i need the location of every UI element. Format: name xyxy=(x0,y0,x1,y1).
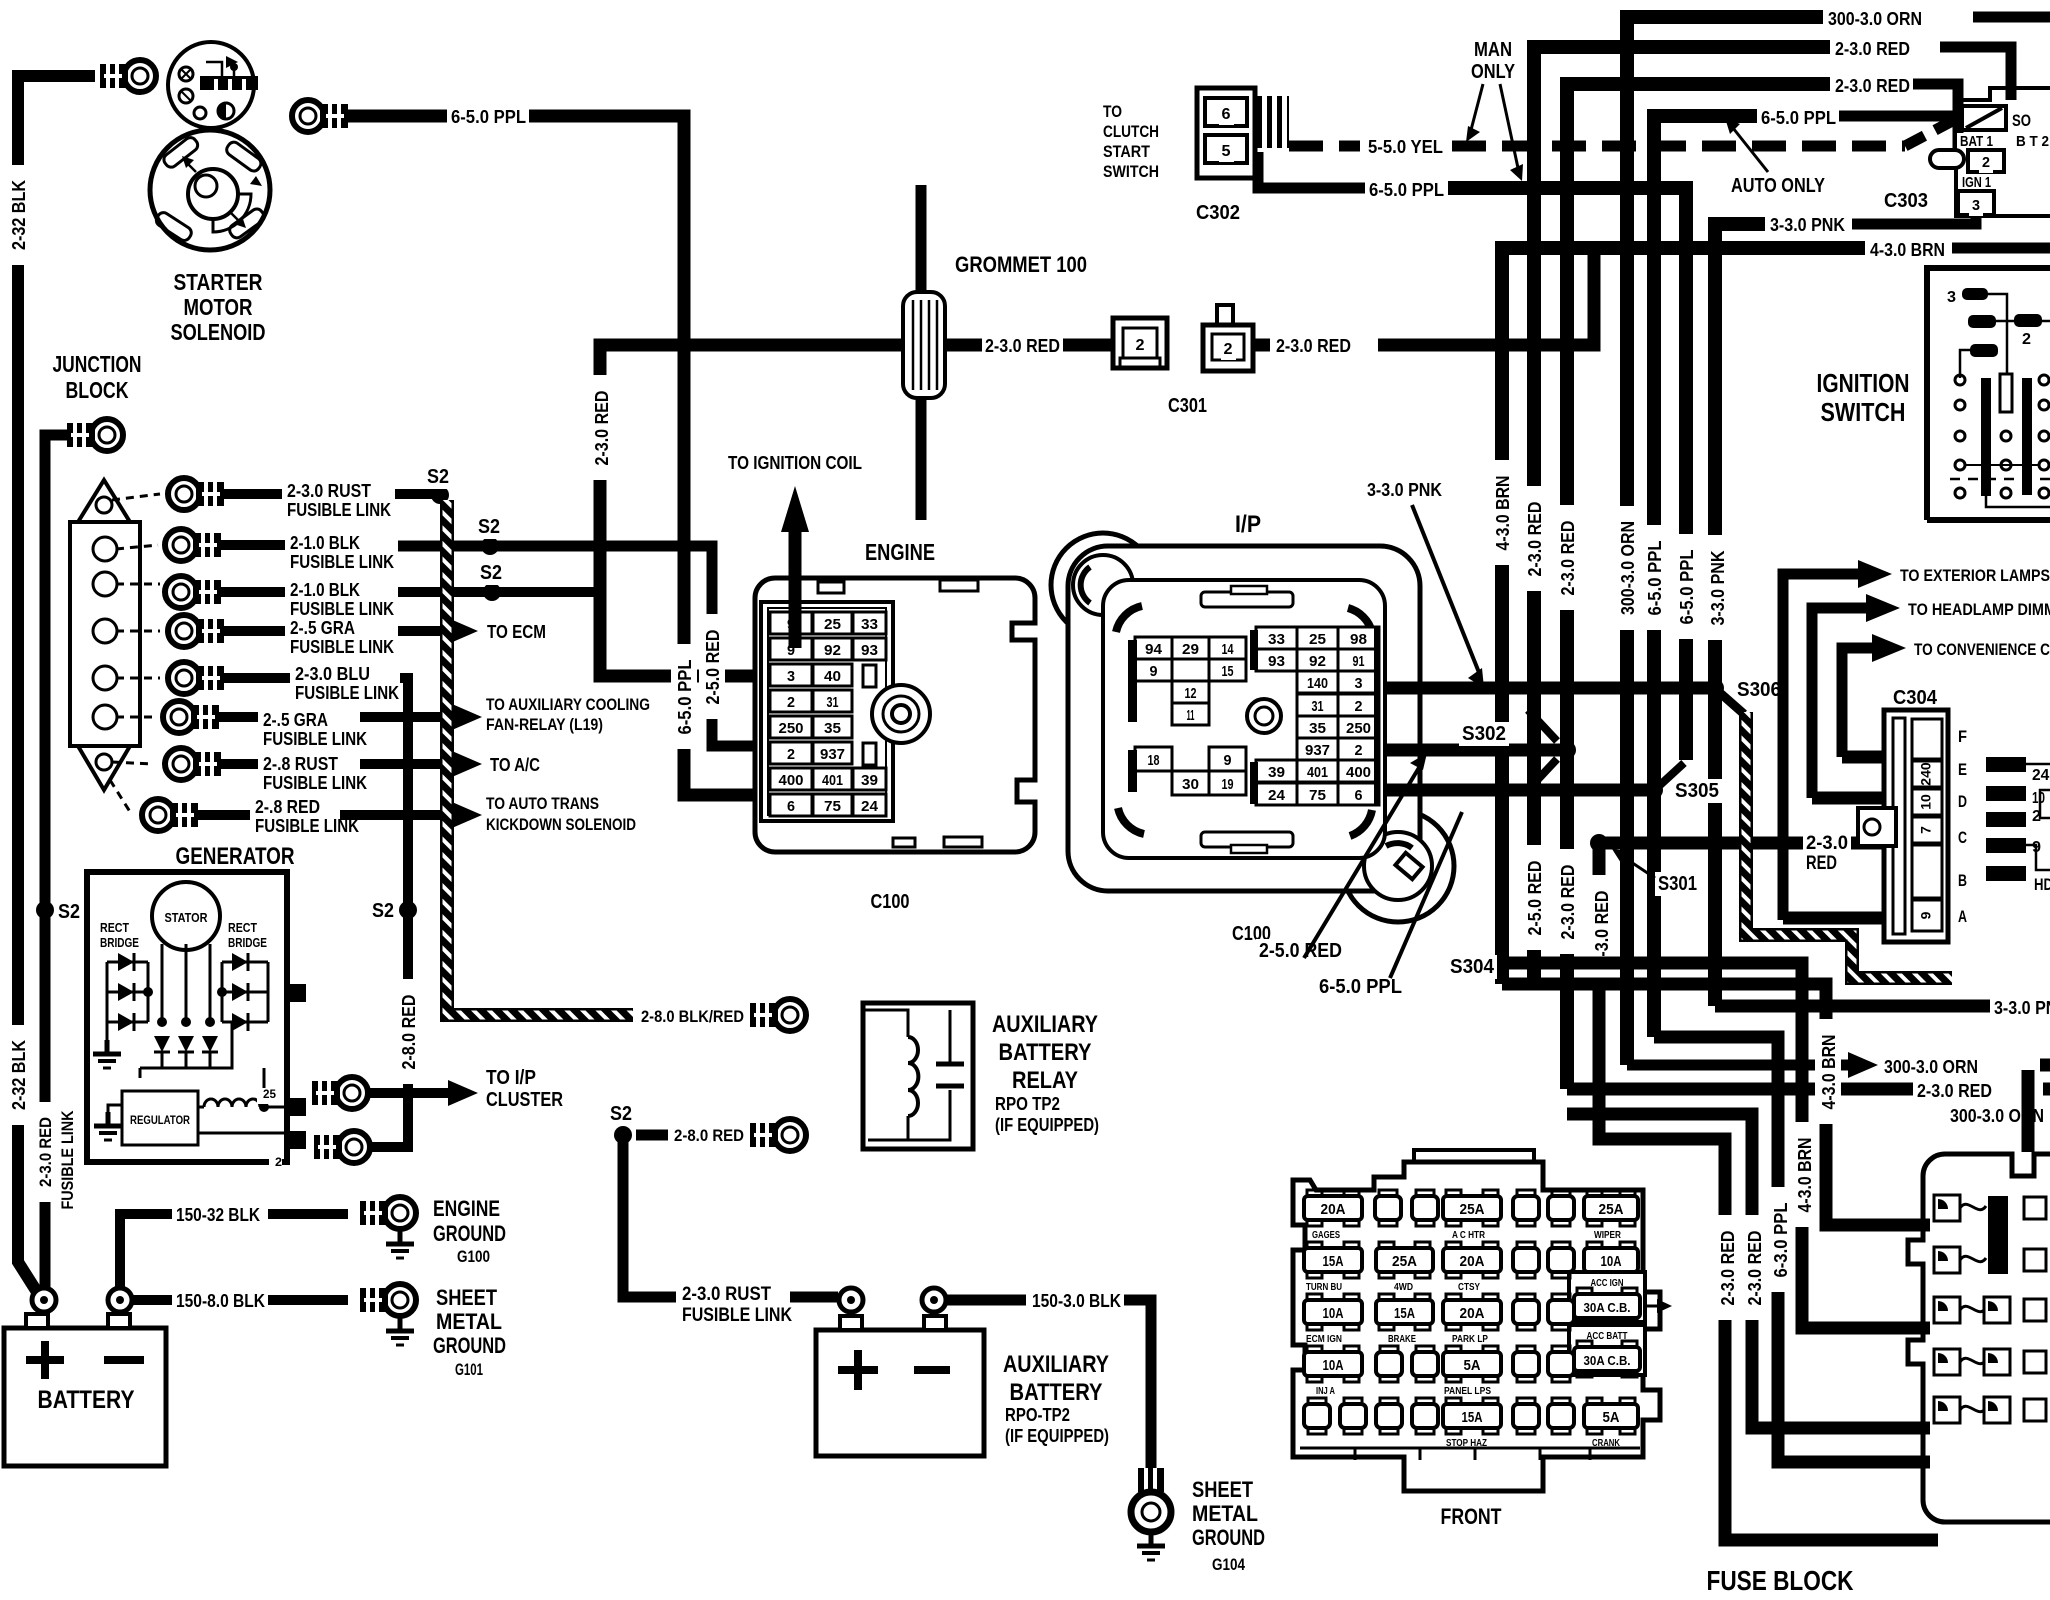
ring terminal G104 xyxy=(1138,1468,1164,1492)
label 300-3.0 ORN lower xyxy=(1947,1106,2047,1128)
svg-text:BATTERY: BATTERY xyxy=(999,1039,1092,1066)
svg-text:2-3.0 RED: 2-3.0 RED xyxy=(1835,76,1910,96)
svg-text:2: 2 xyxy=(1355,742,1363,759)
fuse block front shell xyxy=(1293,1162,1660,1491)
svg-text:ENGINE: ENGINE xyxy=(433,1196,500,1221)
bus 6-5.0 PPL second xyxy=(1258,152,1365,188)
svg-text:10A: 10A xyxy=(1323,1305,1344,1322)
svg-text:CLUTCH: CLUTCH xyxy=(1103,122,1159,141)
wire 2-.5 GRA FUSIBLE LINK to fan relay xyxy=(216,712,258,722)
svg-text:GENERATOR: GENERATOR xyxy=(176,843,295,870)
label FUSE BLOCK xyxy=(1704,1564,1857,1596)
svg-text:D: D xyxy=(1958,792,1967,811)
svg-text:25A: 25A xyxy=(1392,1253,1417,1270)
starter motor solenoid xyxy=(168,42,254,128)
svg-text:IGN 1: IGN 1 xyxy=(1962,174,1991,191)
svg-text:MAN: MAN xyxy=(1474,39,1512,61)
wire 2-.8 RED FUSIBLE LINK to kickdown solenoid xyxy=(195,810,250,820)
svg-text:2: 2 xyxy=(1355,698,1363,715)
svg-text:4-3.0 BRN: 4-3.0 BRN xyxy=(1819,1035,1839,1110)
wire 2-3.0 RED (C301 to engine connector) xyxy=(600,345,1113,676)
auxiliary battery xyxy=(816,1330,984,1456)
svg-text:31: 31 xyxy=(1312,698,1324,715)
svg-text:2-3.0 RED: 2-3.0 RED xyxy=(1525,502,1545,577)
wire 2-3.0 RUST FUSIBLE LINK xyxy=(221,489,282,499)
svg-text:G101: G101 xyxy=(455,1360,483,1379)
ring terminal fusible link row 3 xyxy=(165,576,197,608)
svg-text:RED: RED xyxy=(1806,853,1837,874)
svg-text:FUSIBLE LINK: FUSIBLE LINK xyxy=(290,599,394,619)
svg-text:18: 18 xyxy=(1148,752,1160,769)
generator pin 25 xyxy=(284,1098,306,1116)
svg-text:33: 33 xyxy=(1268,631,1285,648)
svg-text:3-3.0 PNK: 3-3.0 PNK xyxy=(1770,215,1845,235)
svg-text:10A: 10A xyxy=(1323,1357,1344,1374)
svg-text:FRONT: FRONT xyxy=(1441,1504,1502,1529)
svg-text:6-5.0 PPL: 6-5.0 PPL xyxy=(1369,180,1444,200)
auxiliary battery relay xyxy=(863,1003,973,1149)
wire to convenience center xyxy=(1842,648,1876,757)
svg-text:150-8.0 BLK: 150-8.0 BLK xyxy=(176,1291,265,1311)
svg-text:JUNCTION: JUNCTION xyxy=(53,351,142,377)
svg-text:10: 10 xyxy=(2032,790,2045,807)
sheet metal ground symbol xyxy=(398,1317,403,1331)
svg-text:HD: HD xyxy=(2034,875,2050,894)
wire I/P to S305 xyxy=(1384,784,1654,797)
svg-text:6-5.0 PPL: 6-5.0 PPL xyxy=(1677,550,1697,625)
generator ground xyxy=(105,1040,110,1054)
splice S302 xyxy=(1558,741,1576,759)
svg-text:6-3.0 PPL: 6-3.0 PPL xyxy=(1771,1203,1791,1278)
svg-text:20A: 20A xyxy=(1460,1253,1485,1270)
svg-text:4-3.0 BRN: 4-3.0 BRN xyxy=(1870,240,1945,260)
svg-text:20A: 20A xyxy=(1321,1201,1346,1218)
connector C304 xyxy=(1884,710,1948,942)
splice S301 xyxy=(1590,834,1608,852)
C304 lock tab xyxy=(1858,808,1896,846)
svg-text:2-1.0 BLK: 2-1.0 BLK xyxy=(290,533,360,553)
svg-text:25A: 25A xyxy=(1599,1201,1624,1218)
label STARTER MOTOR SOLENOID xyxy=(171,269,266,296)
ring terminal fusible link row 4 xyxy=(168,615,200,647)
fuse 10A RADIO xyxy=(1587,1242,1602,1252)
svg-text:94: 94 xyxy=(1145,641,1163,658)
wire 2-5.0 RED (junction row 2 to engine connector) xyxy=(398,546,772,746)
svg-text:FUSIBLE LINK: FUSIBLE LINK xyxy=(682,1305,792,1326)
wire 2-8.0 RED to relay xyxy=(636,1130,668,1141)
svg-text:2-3.0 RED: 2-3.0 RED xyxy=(592,391,612,466)
svg-text:10A: 10A xyxy=(1601,1253,1622,1270)
rear connector terminals xyxy=(1934,1195,1960,1221)
svg-text:BRAKE: BRAKE xyxy=(1388,1334,1416,1345)
engine ground symbol xyxy=(398,1230,403,1244)
svg-text:IGNITION: IGNITION xyxy=(1817,368,1910,398)
svg-text:15: 15 xyxy=(1222,663,1234,680)
svg-text:S304: S304 xyxy=(1450,956,1495,978)
callout 3-3.0 PNK xyxy=(1364,480,1445,502)
svg-text:6: 6 xyxy=(787,798,795,815)
wire 2-.5 GRA FUSIBLE LINK to ECM xyxy=(221,626,285,636)
svg-text:2-3.0 RED: 2-3.0 RED xyxy=(1276,336,1351,356)
label RECT BRIDGE left xyxy=(97,921,132,938)
svg-text:25: 25 xyxy=(824,616,841,633)
svg-text:C303: C303 xyxy=(1884,190,1928,212)
wire 2-.8 RUST FUSIBLE LINK to A/C xyxy=(218,759,258,769)
svg-text:AUTO ONLY: AUTO ONLY xyxy=(1731,175,1826,197)
label ENGINE xyxy=(862,539,938,566)
svg-text:F: F xyxy=(1958,727,1967,746)
splice joints at S302 xyxy=(1528,710,1557,741)
svg-text:2-3.0 RUST: 2-3.0 RUST xyxy=(682,1284,771,1305)
svg-text:AUXILIARY: AUXILIARY xyxy=(992,1011,1098,1038)
svg-text:C301: C301 xyxy=(1168,395,1207,417)
svg-text:TURN BU: TURN BU xyxy=(1306,1282,1342,1293)
svg-text:MOTOR: MOTOR xyxy=(184,294,253,320)
svg-text:I/P: I/P xyxy=(1235,511,1261,538)
label C100 engine xyxy=(868,890,913,914)
svg-text:35: 35 xyxy=(1309,720,1326,737)
connector C302 xyxy=(1197,88,1255,178)
fuse 25A A C HTR xyxy=(1446,1190,1461,1200)
svg-text:140: 140 xyxy=(1307,675,1328,692)
svg-text:RECT: RECT xyxy=(100,920,129,935)
label C304 xyxy=(1890,686,1940,710)
svg-text:2-3.0 RED: 2-3.0 RED xyxy=(985,336,1060,356)
svg-text:6: 6 xyxy=(1222,106,1231,123)
wire 2-3.0 RED (C301 to ignition area) xyxy=(1253,339,1270,352)
svg-text:93: 93 xyxy=(861,642,878,659)
svg-text:STARTER: STARTER xyxy=(174,269,263,295)
svg-text:250: 250 xyxy=(1346,720,1371,737)
svg-text:TO A/C: TO A/C xyxy=(490,755,540,775)
ring terminal fusible link row 5 xyxy=(168,662,200,694)
fuse 20A PARK LP xyxy=(1446,1294,1461,1304)
wire into rear connector notch xyxy=(2022,1070,2035,1152)
ring terminal fusible link row 2 xyxy=(165,529,197,561)
svg-text:9: 9 xyxy=(1224,752,1232,769)
ring terminal generator 2 xyxy=(338,1131,370,1163)
svg-text:(IF EQUIPPED): (IF EQUIPPED) xyxy=(995,1115,1099,1135)
C304 mating pins xyxy=(1986,757,2026,772)
wire 3-3.0 PNK to right xyxy=(1715,1000,1990,1013)
instrument panel connector shell xyxy=(1051,533,1155,637)
svg-text:20A: 20A xyxy=(1460,1305,1485,1322)
bus 4-3.0 BRN xyxy=(1952,243,2050,254)
svg-text:GROUND: GROUND xyxy=(433,1333,506,1358)
svg-text:AUXILIARY: AUXILIARY xyxy=(1003,1351,1109,1378)
fuse 10A INJ A xyxy=(1307,1346,1322,1356)
svg-text:S2: S2 xyxy=(58,901,80,923)
svg-text:FUSIBLE LINK: FUSIBLE LINK xyxy=(58,1110,77,1210)
sheet metal ground G104 symbol xyxy=(1149,1532,1154,1546)
bus 2-3.0 RED from S301 xyxy=(1599,843,1938,1540)
svg-text:4-3.0 BRN: 4-3.0 BRN xyxy=(1493,476,1513,551)
label C302 xyxy=(1193,201,1243,225)
wire 2-3.0 RED to right xyxy=(1567,1083,1913,1096)
svg-text:2: 2 xyxy=(1982,154,1990,171)
svg-text:2-3.0 RED: 2-3.0 RED xyxy=(1558,521,1578,596)
svg-text:2: 2 xyxy=(1136,337,1145,354)
wire 2-3.0 RED FUSIBLE LINK (junction block feed) xyxy=(45,435,80,1287)
bus 300-3.0 ORN xyxy=(1973,12,2050,23)
wire 2-8.0 BLK/RED hatched xyxy=(447,500,633,1015)
svg-text:A C HTR: A C HTR xyxy=(1452,1230,1486,1241)
label ENGINE GROUND G100 xyxy=(430,1196,503,1222)
label AUXILIARY BATTERY RELAY xyxy=(989,1010,1101,1038)
svg-text:39: 39 xyxy=(861,772,878,789)
svg-text:401: 401 xyxy=(822,772,843,789)
svg-text:S305: S305 xyxy=(1675,780,1719,802)
auto only arrow xyxy=(1733,128,1768,172)
svg-text:KICKDOWN SOLENOID: KICKDOWN SOLENOID xyxy=(486,815,636,834)
svg-text:98: 98 xyxy=(1350,631,1367,648)
svg-text:B T 2: B T 2 xyxy=(2016,133,2049,150)
svg-text:93: 93 xyxy=(1268,653,1285,670)
svg-text:E: E xyxy=(1958,760,1967,779)
ring terminal (solenoid S feed) xyxy=(292,100,324,132)
svg-text:C304: C304 xyxy=(1893,687,1938,709)
svg-text:3: 3 xyxy=(1947,289,1956,306)
svg-text:FUSIBLE LINK: FUSIBLE LINK xyxy=(290,637,394,657)
svg-text:2-32 BLK: 2-32 BLK xyxy=(9,1040,29,1110)
svg-text:S2: S2 xyxy=(610,1103,632,1125)
svg-text:2-.5 GRA: 2-.5 GRA xyxy=(263,710,328,730)
svg-text:5A: 5A xyxy=(1464,1357,1481,1374)
svg-text:40: 40 xyxy=(824,668,841,685)
svg-text:3: 3 xyxy=(1972,197,1980,214)
svg-text:35: 35 xyxy=(824,720,841,737)
svg-text:GROMMET 100: GROMMET 100 xyxy=(955,252,1087,277)
svg-text:2-3.0 RED: 2-3.0 RED xyxy=(1718,1231,1738,1306)
svg-text:ACC IGN: ACC IGN xyxy=(1591,1278,1624,1289)
svg-text:9: 9 xyxy=(1150,663,1158,680)
label FRONT xyxy=(1438,1504,1505,1530)
svg-text:GROUND: GROUND xyxy=(1192,1525,1265,1550)
ring terminal (solenoid BAT feed) xyxy=(124,60,156,92)
feeder labels xyxy=(1714,1215,1740,1320)
wire 150-3.0 BLK xyxy=(947,1295,1026,1306)
svg-text:2: 2 xyxy=(275,1155,282,1169)
regulator ground xyxy=(106,1112,111,1126)
field coil xyxy=(198,1106,204,1109)
svg-text:(IF EQUIPPED): (IF EQUIPPED) xyxy=(1005,1426,1109,1446)
svg-text:ENGINE: ENGINE xyxy=(865,539,935,565)
label AUTO ONLY xyxy=(1728,174,1828,198)
fuse 25A WIPER xyxy=(1587,1190,1602,1200)
label JUNCTION BLOCK xyxy=(50,351,145,378)
ring terminal fusible link row 1 xyxy=(168,478,200,510)
ignition switch contacts xyxy=(1941,288,1956,308)
svg-text:6-5.0 PPL: 6-5.0 PPL xyxy=(451,107,526,127)
fuse 15A STOP HAZ xyxy=(1446,1398,1461,1408)
svg-text:2-8.0 RED: 2-8.0 RED xyxy=(674,1126,744,1145)
label 6-5.0 PPL callout xyxy=(1316,975,1405,999)
splice S305 xyxy=(1645,781,1663,799)
svg-text:TO EXTERIOR LAMPS: TO EXTERIOR LAMPS xyxy=(1900,566,2050,585)
svg-text:10: 10 xyxy=(1918,794,1934,810)
wire generator 2 jumper xyxy=(370,1095,408,1147)
svg-text:92: 92 xyxy=(824,642,841,659)
svg-text:C302: C302 xyxy=(1196,202,1240,224)
svg-text:BATTERY: BATTERY xyxy=(38,1386,135,1414)
generator pin 2 xyxy=(284,1131,306,1149)
svg-text:FUSIBLE LINK: FUSIBLE LINK xyxy=(295,683,399,703)
battery xyxy=(4,1328,166,1466)
svg-text:19: 19 xyxy=(1222,776,1234,793)
grommet 100 xyxy=(916,185,927,292)
svg-text:START: START xyxy=(1103,142,1151,161)
to ignition coil arrow shaft through pins xyxy=(789,528,802,648)
fuse 5A CRANK xyxy=(1587,1398,1602,1408)
svg-text:INJ A: INJ A xyxy=(1316,1386,1335,1397)
svg-text:S2: S2 xyxy=(478,516,500,538)
svg-text:401: 401 xyxy=(1307,764,1328,781)
svg-text:2: 2 xyxy=(2022,331,2031,348)
svg-text:REGULATOR: REGULATOR xyxy=(130,1113,190,1127)
ring terminal engine ground xyxy=(384,1197,416,1229)
svg-text:30A C.B.: 30A C.B. xyxy=(1584,1300,1631,1315)
svg-text:CTSY: CTSY xyxy=(1458,1282,1480,1293)
svg-text:METAL: METAL xyxy=(436,1309,502,1334)
svg-text:S2: S2 xyxy=(480,562,502,584)
svg-text:STATOR: STATOR xyxy=(165,910,209,925)
fuse 20A CTSY xyxy=(1446,1242,1461,1252)
svg-text:SWITCH: SWITCH xyxy=(1103,162,1159,181)
svg-text:39: 39 xyxy=(1268,764,1285,781)
wire 2-1.0 BLK FUSIBLE LINK (row 3) xyxy=(218,587,285,597)
svg-text:11: 11 xyxy=(1187,707,1195,724)
wire 2-3.0 RUST fusible to aux battery xyxy=(623,1135,676,1297)
svg-text:2: 2 xyxy=(1224,341,1233,358)
svg-text:GROUND: GROUND xyxy=(433,1221,506,1246)
svg-text:2-3.0: 2-3.0 xyxy=(1806,833,1848,854)
svg-text:24: 24 xyxy=(861,798,879,815)
svg-text:TO IGNITION COIL: TO IGNITION COIL xyxy=(728,453,862,473)
svg-text:2-3.0 RED: 2-3.0 RED xyxy=(1917,1081,1992,1101)
svg-text:75: 75 xyxy=(1309,787,1326,804)
splice S306 xyxy=(1706,679,1724,697)
svg-text:2-3.0 RED: 2-3.0 RED xyxy=(1592,891,1612,966)
wire S301 to C304 (2-3.0 RED) xyxy=(1599,837,1884,850)
svg-text:RPO-TP2: RPO-TP2 xyxy=(1005,1405,1070,1425)
svg-text:15A: 15A xyxy=(1462,1409,1483,1426)
ring terminal sheet metal ground xyxy=(384,1284,416,1316)
svg-text:2-32 BLK: 2-32 BLK xyxy=(9,180,29,250)
svg-text:6-5.0 PPL: 6-5.0 PPL xyxy=(675,660,695,735)
man only arrows xyxy=(1471,84,1483,130)
svg-text:25A: 25A xyxy=(1460,1201,1485,1218)
svg-text:2-5.0 RED: 2-5.0 RED xyxy=(1525,861,1545,936)
svg-text:300-3.0 ORN: 300-3.0 ORN xyxy=(1828,9,1922,29)
svg-text:6-5.0 PPL: 6-5.0 PPL xyxy=(1319,976,1402,998)
svg-text:3-3.0 PNK: 3-3.0 PNK xyxy=(1367,480,1442,500)
svg-text:2-5.0 RED: 2-5.0 RED xyxy=(1259,940,1342,962)
svg-text:9: 9 xyxy=(1918,911,1934,919)
svg-text:2-3.0 BLU: 2-3.0 BLU xyxy=(295,664,370,684)
wire 6-3.0 PPL to fuse block xyxy=(1654,1037,1930,1462)
svg-text:24: 24 xyxy=(1268,787,1286,804)
svg-text:PANEL LPS: PANEL LPS xyxy=(1444,1386,1491,1397)
svg-text:7: 7 xyxy=(1918,826,1934,834)
hatched wire S306 to fuse block xyxy=(1719,692,1744,714)
svg-text:2-3.0 RED: 2-3.0 RED xyxy=(1558,865,1578,940)
connector C303 xyxy=(1956,88,2050,216)
engine connector pin table xyxy=(761,602,893,821)
label SHEET METAL GROUND G104 xyxy=(1189,1477,1256,1503)
ring terminal generator 25 xyxy=(336,1077,368,1109)
label RECT BRIDGE right xyxy=(225,921,260,938)
bus 2-3.0 RED upper xyxy=(1940,47,2011,100)
svg-text:BAT 1: BAT 1 xyxy=(1960,133,1993,150)
svg-text:2-1.0 BLK: 2-1.0 BLK xyxy=(290,580,360,600)
svg-text:RECT: RECT xyxy=(228,920,257,935)
engine connector shell C100 xyxy=(755,578,1035,852)
svg-text:TO I/P: TO I/P xyxy=(486,1067,536,1089)
acc ign pointer arrow xyxy=(1645,1305,1658,1308)
label MAN ONLY xyxy=(1471,38,1515,62)
svg-text:150-3.0 BLK: 150-3.0 BLK xyxy=(1032,1291,1121,1311)
svg-text:300-3.0 ORN: 300-3.0 ORN xyxy=(1884,1057,1978,1077)
svg-text:SWITCH: SWITCH xyxy=(1821,397,1906,427)
svg-text:SOLENOID: SOLENOID xyxy=(171,319,266,345)
svg-text:SO: SO xyxy=(2012,111,2031,130)
svg-text:FUSIBLE LINK: FUSIBLE LINK xyxy=(263,729,367,749)
rectifier bridge diodes xyxy=(107,961,148,964)
wire 5-5.0 YEL dashed xyxy=(1289,141,1360,152)
svg-text:S302: S302 xyxy=(1462,723,1506,745)
svg-text:SHEET: SHEET xyxy=(1192,1477,1253,1502)
ignition switch box xyxy=(1927,268,2050,520)
svg-text:2-3.0 RED: 2-3.0 RED xyxy=(1835,39,1910,59)
label GENERATOR xyxy=(172,842,297,870)
svg-text:S301: S301 xyxy=(1658,873,1697,895)
headlamp dimmer box xyxy=(2026,763,2050,766)
aux battery negative ring xyxy=(922,1288,946,1312)
wire 2-3.0 RED branch to fuse block xyxy=(1567,1114,1930,1428)
label TO CLUTCH START SWITCH xyxy=(1100,102,1125,123)
svg-text:29: 29 xyxy=(1182,641,1199,658)
svg-text:RPO TP2: RPO TP2 xyxy=(995,1094,1060,1114)
ring terminal aux relay top xyxy=(774,999,806,1031)
label SHEET METAL GROUND G101 xyxy=(433,1285,500,1311)
label IGNITION SWITCH xyxy=(1813,368,1912,398)
label C303 xyxy=(1881,189,1931,213)
wire 2-32 BLK (battery feed from solenoid) xyxy=(18,76,95,1292)
svg-text:METAL: METAL xyxy=(1192,1501,1258,1526)
svg-text:937: 937 xyxy=(820,746,845,763)
svg-text:400: 400 xyxy=(1346,764,1371,781)
splice S2 row2 xyxy=(481,537,499,555)
wire to exterior lamps xyxy=(1783,574,1862,920)
svg-text:2-8.0 BLK/RED: 2-8.0 BLK/RED xyxy=(641,1007,744,1026)
fuse 5A PANEL LPS xyxy=(1446,1346,1461,1356)
label TO IGNITION COIL xyxy=(725,453,865,475)
svg-text:C: C xyxy=(1958,828,1967,847)
fuse block bottom strip xyxy=(1300,1447,1640,1450)
fuse 20A GAGES xyxy=(1307,1190,1322,1200)
svg-text:4WD: 4WD xyxy=(1394,1282,1413,1293)
splice S2 row3 xyxy=(483,583,501,601)
svg-text:25: 25 xyxy=(263,1087,276,1101)
svg-text:5: 5 xyxy=(1222,143,1231,160)
svg-text:6: 6 xyxy=(1355,787,1363,804)
svg-text:ECM IGN: ECM IGN xyxy=(1306,1334,1342,1345)
svg-text:3-3.0 PNK: 3-3.0 PNK xyxy=(1994,998,2050,1018)
bus 3-3.0 PNK xyxy=(1852,205,1976,224)
connector C301 plug 1 xyxy=(1113,318,1167,368)
label I/P xyxy=(1232,510,1264,538)
svg-text:2-3.0 RED: 2-3.0 RED xyxy=(36,1117,55,1187)
